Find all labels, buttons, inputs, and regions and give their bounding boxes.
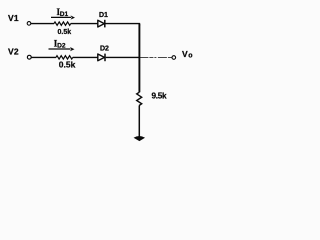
wire D2 to rail junction xyxy=(106,56,140,58)
wire R1 to D1 xyxy=(71,23,98,25)
resistor R1 0.5k zigzag xyxy=(54,22,71,25)
svg-text:0.5k: 0.5k xyxy=(59,59,76,69)
svg-text:V: V xyxy=(182,49,188,59)
terminal circle V1 xyxy=(27,22,31,26)
terminal circle Vo xyxy=(172,56,176,60)
svg-text:D2: D2 xyxy=(100,46,109,53)
diode D2 xyxy=(98,54,105,62)
current label ID1 xyxy=(57,7,69,18)
terminal circle V2 xyxy=(27,55,31,59)
resistor R2 0.5k zigzag xyxy=(56,56,73,59)
vertical rail wire xyxy=(138,24,140,93)
wire D1 to rail corner xyxy=(106,24,140,26)
resistor R3 9.5k zigzag xyxy=(137,92,142,105)
svg-text:o: o xyxy=(188,52,192,59)
wire R3 to ground xyxy=(138,106,140,138)
wire V1 to R1 xyxy=(31,23,54,25)
diode D1 xyxy=(98,20,105,28)
wire R2 to D2 xyxy=(73,56,98,58)
svg-text:D1: D1 xyxy=(99,12,108,19)
current arrow ID1 xyxy=(51,15,75,19)
svg-text:V1: V1 xyxy=(8,13,19,23)
ground arrow xyxy=(134,136,144,140)
current arrow ID2 xyxy=(49,47,75,51)
svg-text:0.5k: 0.5k xyxy=(58,29,72,36)
svg-text:V2: V2 xyxy=(8,47,19,57)
current label ID2 xyxy=(54,39,66,50)
wire V2 to R2 xyxy=(31,56,56,58)
node Vo label xyxy=(182,49,193,59)
svg-text:9.5k: 9.5k xyxy=(152,92,167,101)
wire junction to Vo terminal xyxy=(139,56,171,58)
